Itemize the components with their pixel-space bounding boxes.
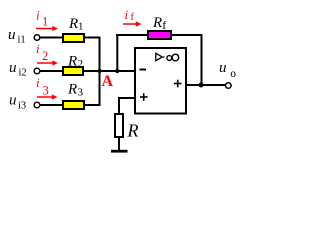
label i1 xyxy=(36,8,48,29)
ground xyxy=(111,150,128,153)
svg-text:3: 3 xyxy=(78,87,84,99)
op-amp gain symbol infinity xyxy=(167,54,179,61)
label i2 xyxy=(36,41,48,63)
svg-text:R: R xyxy=(68,16,78,32)
op-amp gain symbol triangle xyxy=(156,53,165,60)
resistor R xyxy=(115,114,123,137)
svg-text:R: R xyxy=(67,54,77,70)
input terminal u_i2 xyxy=(34,68,40,74)
svg-text:u: u xyxy=(8,27,16,43)
svg-text:u: u xyxy=(219,60,227,76)
label i3 xyxy=(36,75,49,98)
wire feedback down to output xyxy=(201,34,203,85)
input terminal u_i3 xyxy=(34,102,40,108)
current arrow i2 xyxy=(37,60,58,65)
svg-text:f: f xyxy=(131,12,135,23)
svg-text:u: u xyxy=(9,93,17,109)
wire u_i2 to R2 xyxy=(40,70,63,72)
wire R2 to op-amp (node A row) xyxy=(84,70,135,72)
svg-text:2: 2 xyxy=(78,58,84,70)
op-amp non-inverting input marker xyxy=(140,93,148,101)
wire u_i3 to R3 xyxy=(40,104,63,106)
svg-text:u: u xyxy=(9,60,17,76)
op-amp U1 xyxy=(135,48,186,114)
resistor R2 xyxy=(63,67,83,75)
wire R1 to bus xyxy=(85,37,101,39)
wire to Rf xyxy=(116,34,148,36)
resistor R3 xyxy=(63,101,84,109)
op-amp output polarity marker xyxy=(174,80,182,88)
wire summing bus vertical xyxy=(99,37,101,107)
label R2 xyxy=(67,54,83,71)
label u_i2 xyxy=(9,60,27,79)
resistor R1 xyxy=(63,34,84,42)
current arrow i1 xyxy=(36,26,58,31)
svg-text:R: R xyxy=(67,82,77,98)
svg-text:1: 1 xyxy=(42,15,48,29)
label u_i3 xyxy=(9,93,26,112)
svg-text:f: f xyxy=(162,18,166,32)
svg-text:i: i xyxy=(36,8,40,23)
op-amp inverting input marker xyxy=(140,69,147,71)
resistor Rf xyxy=(148,31,171,39)
current arrow i3 xyxy=(37,94,58,99)
svg-text:i1: i1 xyxy=(18,35,26,46)
label R1 xyxy=(68,16,84,33)
svg-text:i: i xyxy=(125,7,129,22)
label if xyxy=(125,7,135,23)
output terminal u_o xyxy=(226,83,232,89)
current arrow if xyxy=(123,21,142,26)
input terminal u_i1 xyxy=(34,35,40,41)
junction dot feedback branch xyxy=(115,69,119,73)
svg-text:1: 1 xyxy=(78,21,84,33)
svg-text:i2: i2 xyxy=(19,68,27,79)
svg-text:i: i xyxy=(36,75,40,90)
svg-text:i3: i3 xyxy=(18,101,26,112)
wire R3 to bus xyxy=(85,104,101,106)
svg-text:2: 2 xyxy=(42,49,48,63)
label Rf xyxy=(152,15,166,32)
junction dot at bus / node A xyxy=(97,69,101,73)
label u_o xyxy=(219,60,236,80)
wire Rf to output branch xyxy=(171,34,203,36)
wire op-amp output xyxy=(186,84,226,86)
svg-text:R: R xyxy=(152,15,162,31)
wire R to ground xyxy=(118,137,120,151)
wire feedback branch up xyxy=(116,34,118,71)
wire non-inverting input to R xyxy=(119,98,135,114)
svg-text:o: o xyxy=(230,68,236,80)
wire u_i1 to R1 xyxy=(40,37,63,39)
svg-text:3: 3 xyxy=(43,84,49,98)
label R3 xyxy=(67,82,84,99)
label u_i1 xyxy=(8,27,26,46)
svg-text:A: A xyxy=(102,73,114,90)
svg-text:i: i xyxy=(36,41,40,56)
junction dot output xyxy=(199,83,204,88)
svg-text:R: R xyxy=(127,121,139,141)
